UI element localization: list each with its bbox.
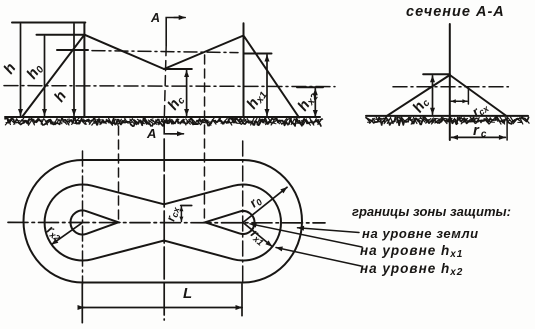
projection dashed x=118.5 bbox=[118, 126, 120, 222]
teardrop left (level hx1) bbox=[71, 210, 119, 234]
radius r0 bbox=[243, 187, 287, 222]
dim h second bbox=[73, 24, 75, 116]
mast 1 (left) bbox=[83, 23, 85, 118]
marker A bottom bbox=[164, 123, 180, 134]
section dim r_c bbox=[452, 136, 506, 138]
projection dashed x=204.5 bbox=[203, 55, 205, 222]
svg-text:на уровне земли: на уровне земли bbox=[362, 226, 479, 241]
svg-text:rcx: rcx bbox=[469, 98, 491, 120]
mast1 axis plan bbox=[82, 151, 84, 284]
tick h0 bbox=[37, 34, 86, 36]
svg-text:на уровне hх1: на уровне hх1 bbox=[360, 243, 463, 260]
dim h bbox=[20, 24, 22, 116]
section line A-A elevation dashes bbox=[164, 46, 166, 122]
mast2 axis plan bbox=[242, 141, 244, 284]
svg-text:rx2: rx2 bbox=[44, 222, 66, 244]
outer zone boundary plan bbox=[24, 160, 303, 283]
svg-text:L: L bbox=[183, 285, 192, 302]
teardrop right (level hx1) bbox=[205, 211, 255, 234]
svg-text:hc: hc bbox=[164, 91, 187, 114]
svg-text:на уровне hх2: на уровне hх2 bbox=[360, 261, 463, 278]
level hx2 dashdot bbox=[4, 86, 335, 87]
svg-text:А: А bbox=[150, 11, 160, 25]
middle zone boundary plan bbox=[45, 185, 281, 261]
zone boundary right outer bbox=[244, 36, 300, 118]
mast 2 (right) bbox=[243, 23, 245, 117]
section slope left bbox=[386, 75, 449, 116]
svg-text:h0: h0 bbox=[23, 60, 46, 83]
section dim hc bbox=[432, 76, 434, 115]
ground elevation main bbox=[5, 116, 320, 118]
section line A-A plan bbox=[163, 139, 165, 320]
tick hx1 right bbox=[244, 53, 272, 55]
svg-text:границы зоны защиты:: границы зоны защиты: bbox=[352, 204, 511, 219]
svg-text:hc: hc bbox=[409, 94, 432, 117]
svg-text:h: h bbox=[0, 60, 19, 77]
level hx1 solid left bbox=[57, 49, 88, 51]
level hx1 dashdot bbox=[92, 51, 238, 53]
section level dashdot bbox=[393, 86, 508, 88]
svg-text:hx2: hx2 bbox=[294, 88, 321, 115]
svg-text:rc: rc bbox=[473, 122, 488, 140]
section dim r_cx bbox=[451, 100, 467, 102]
leader ground level bbox=[298, 228, 360, 233]
dim hc bbox=[186, 71, 188, 116]
section r_c extension bbox=[506, 117, 508, 140]
dim h0 bbox=[44, 36, 46, 115]
tick hc valley bbox=[164, 68, 192, 70]
plan axis horizontal bbox=[8, 221, 325, 224]
tick h top bbox=[12, 22, 85, 24]
dim L bbox=[82, 307, 84, 309]
svg-text:А: А bbox=[146, 126, 156, 141]
dim hx2 bbox=[314, 89, 316, 117]
zone boundary right inner bbox=[164, 36, 244, 70]
svg-text:h: h bbox=[51, 88, 70, 105]
svg-text:rcx: rcx bbox=[163, 204, 182, 223]
tick hx2 right bbox=[297, 86, 323, 88]
section A-A axis vertical bbox=[449, 24, 451, 140]
section ground bbox=[366, 115, 528, 117]
leader level hx2 bbox=[276, 248, 361, 267]
section r_cx tick bbox=[467, 89, 469, 105]
zone boundary left outer bbox=[22, 35, 84, 117]
leader level hx1 bbox=[250, 224, 362, 247]
svg-text:сечение А-А: сечение А-А bbox=[406, 4, 505, 20]
dim hx1 bbox=[266, 55, 268, 116]
svg-text:hx1: hx1 bbox=[243, 86, 270, 113]
marker A top bbox=[166, 18, 183, 46]
dim r_cx plan tick bbox=[181, 205, 192, 207]
section apex tick bbox=[423, 73, 450, 75]
dim r_cx plan bbox=[180, 207, 182, 222]
section slope right bbox=[450, 75, 506, 116]
radius r_x2 bbox=[52, 223, 83, 245]
radius r_x1 bbox=[243, 223, 272, 247]
zone boundary left inner bbox=[84, 35, 164, 69]
